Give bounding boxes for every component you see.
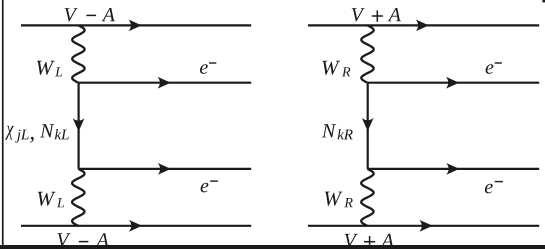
- arrow on top line (right): [416, 20, 429, 32]
- label V+A above top-right line: [352, 8, 401, 22]
- figure border bottom bar: [0, 245, 545, 249]
- label e- upper-left electron: [200, 63, 216, 74]
- wire: upper electron line (left): [79, 82, 252, 84]
- W boson wavy line lower (right): [361, 169, 373, 226]
- label N_kR neutrino name (right): [322, 124, 353, 139]
- arrow on lower electron line (right): [446, 163, 459, 175]
- arrow on upper electron line (left): [158, 77, 171, 89]
- label W_L at upper-left wavy line: [37, 61, 62, 77]
- label chi_jL, N_kL neutrino names (left): [5, 124, 69, 142]
- wire: neutrino propagator vertical (left): [77, 83, 79, 169]
- figure border left edge: [2, 0, 4, 249]
- wire: bottom quark line (left): [21, 225, 251, 227]
- W boson wavy line upper (left): [72, 25, 84, 82]
- arrow on top line (left): [129, 20, 142, 32]
- label W_L at lower-left wavy line: [38, 192, 64, 208]
- top-right corner mark: [542, 0, 545, 2]
- label W_R at lower-right wavy line: [325, 192, 353, 208]
- wire: lower electron line (left): [79, 168, 252, 170]
- label V-A below bottom-left line: [57, 233, 109, 247]
- arrow on neutrino propagator (right): [362, 118, 374, 131]
- wire: neutrino propagator vertical (right): [367, 83, 369, 169]
- W boson wavy line lower (left): [72, 169, 84, 226]
- label V-A above top-left line: [65, 8, 115, 22]
- wire: top quark line (right): [308, 24, 539, 26]
- label e- upper-right electron: [486, 63, 502, 74]
- arrow on lower electron line (left): [158, 163, 171, 175]
- label V+A below bottom-right line: [345, 234, 394, 248]
- arrow on upper electron line (right): [446, 77, 459, 89]
- W boson wavy line upper (right): [361, 25, 373, 82]
- wire: bottom quark line (right): [308, 225, 539, 227]
- arrow on neutrino propagator (left): [73, 118, 85, 131]
- label e- lower-right electron: [485, 182, 503, 194]
- label e- lower-left electron: [201, 181, 218, 192]
- wire: upper electron line (right): [368, 82, 540, 84]
- wire: lower electron line (right): [368, 168, 540, 170]
- label W_R at upper-right wavy line: [322, 61, 350, 77]
- arrow on bottom line (right): [419, 220, 432, 232]
- arrow on bottom line (left): [129, 220, 142, 232]
- wire: top quark line (left): [21, 24, 251, 26]
